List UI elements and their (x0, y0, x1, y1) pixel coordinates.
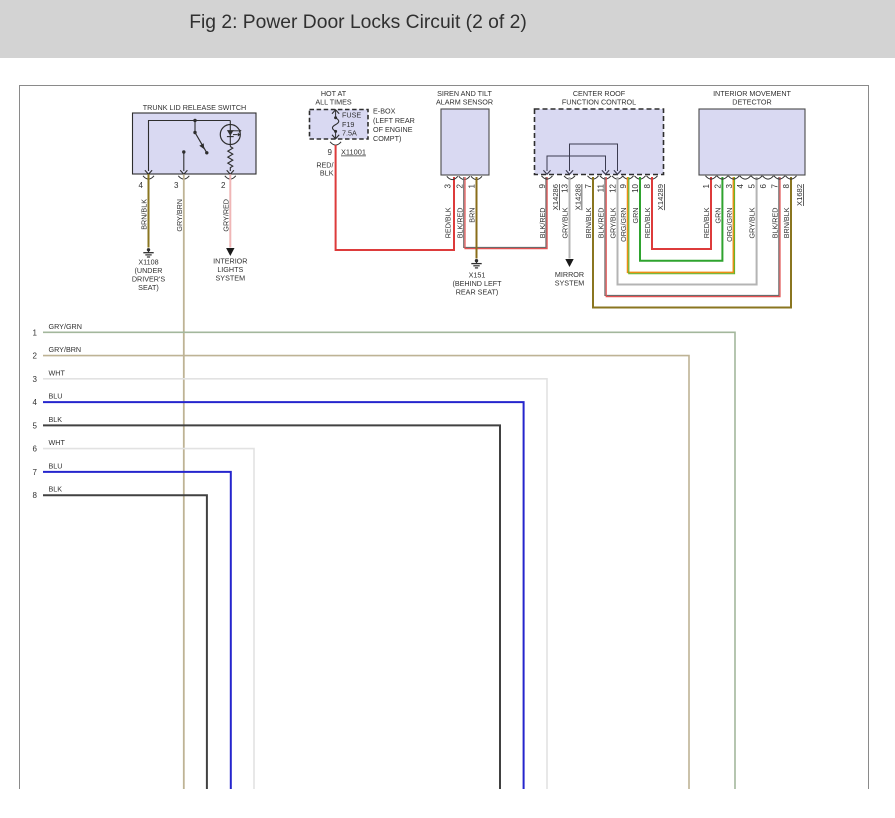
wire: BRN/BLK pin 7 to detector pin 8 (593, 177, 791, 308)
svg-text:8: 8 (782, 183, 791, 188)
svg-text:WHT: WHT (49, 438, 66, 447)
svg-text:BRN/BLK: BRN/BLK (782, 207, 791, 238)
svg-text:SYSTEM: SYSTEM (555, 279, 585, 288)
arrow to mirror system (565, 259, 573, 267)
svg-text:RED/BLK: RED/BLK (702, 207, 711, 238)
svg-text:1: 1 (702, 183, 711, 188)
wire: RED/BLK from fuse to siren pin 3 (336, 145, 454, 250)
svg-text:BRN: BRN (468, 208, 477, 223)
svg-text:4: 4 (139, 181, 144, 190)
svg-text:12: 12 (609, 183, 618, 192)
svg-text:BLK/RED: BLK/RED (770, 208, 779, 239)
LED D1 with resistor (229, 121, 231, 147)
svg-text:Fig 2: Power Door Locks Circui: Fig 2: Power Door Locks Circuit (2 of 2) (189, 12, 527, 33)
connector pins under detector (706, 176, 717, 179)
svg-text:2: 2 (455, 183, 464, 188)
svg-text:SYSTEM: SYSTEM (216, 274, 246, 283)
connector under fuse (330, 142, 341, 145)
svg-text:9: 9 (538, 183, 547, 188)
connector pins under siren (447, 176, 458, 179)
svg-text:2: 2 (713, 183, 722, 188)
header bar (0, 0, 895, 58)
svg-text:ORG/GRN: ORG/GRN (619, 208, 628, 242)
svg-text:7.5A: 7.5A (342, 129, 357, 138)
wire: GRN pin 10 to detector pin 2 (640, 177, 722, 261)
svg-text:SEAT): SEAT) (138, 283, 159, 292)
svg-text:ALARM SENSOR: ALARM SENSOR (436, 98, 493, 107)
svg-text:BLK/RED: BLK/RED (597, 208, 606, 239)
interior movement detector box (699, 109, 805, 175)
wire: pin 3 stub inside switch (182, 150, 185, 153)
svg-text:8: 8 (643, 183, 652, 188)
svg-text:5: 5 (33, 421, 38, 430)
svg-text:RED/BLK: RED/BLK (443, 207, 452, 238)
svg-text:5: 5 (748, 183, 757, 188)
fuse F19 7.5A (332, 110, 339, 114)
svg-text:BLK: BLK (320, 169, 334, 178)
ground X1108 (147, 248, 150, 251)
svg-text:10: 10 (631, 183, 640, 192)
resistor R1 (in switch) (228, 147, 233, 172)
svg-text:3: 3 (443, 183, 452, 188)
wire: RED/BLK pin 8 to detector pin 1 (652, 177, 711, 249)
node: switch common junction (193, 119, 196, 122)
svg-text:BLU: BLU (49, 461, 63, 470)
svg-text:ORG/GRN: ORG/GRN (725, 208, 734, 242)
svg-text:GRY/BLK: GRY/BLK (561, 207, 570, 238)
svg-text:BLU: BLU (49, 392, 63, 401)
fuse box (E-BOX) (310, 110, 369, 140)
svg-text:3: 3 (725, 183, 734, 188)
svg-text:REAR SEAT): REAR SEAT) (456, 288, 499, 297)
wire: ORG/GRN pin 9 to detector pin 3 (628, 177, 734, 272)
svg-text:WHT: WHT (49, 368, 66, 377)
svg-text:9: 9 (619, 183, 628, 188)
svg-text:GRY/GRN: GRY/GRN (49, 322, 82, 331)
center roof function control box (535, 109, 664, 175)
svg-text:1: 1 (468, 183, 477, 188)
svg-text:X14289: X14289 (656, 184, 665, 210)
wire: BLK/RED pin 11 to detector pin 7 (605, 177, 779, 295)
svg-text:13: 13 (561, 183, 570, 192)
switch blade (194, 121, 196, 133)
svg-text:GRY/RED: GRY/RED (221, 199, 230, 232)
svg-text:6: 6 (759, 183, 768, 188)
svg-text:E-BOX: E-BOX (373, 107, 396, 116)
svg-text:OF ENGINE: OF ENGINE (373, 125, 413, 134)
svg-text:ALL TIMES: ALL TIMES (315, 98, 352, 107)
siren and tilt alarm sensor box (441, 109, 489, 175)
svg-text:X14286: X14286 (551, 184, 560, 210)
svg-text:GRY/BRN: GRY/BRN (49, 345, 82, 354)
svg-text:GRY/BRN: GRY/BRN (175, 199, 184, 232)
svg-text:X11001: X11001 (341, 148, 366, 157)
svg-text:GRN: GRN (631, 208, 640, 224)
svg-text:7: 7 (584, 183, 593, 188)
svg-text:COMPT): COMPT) (373, 134, 401, 143)
svg-text:7: 7 (33, 468, 38, 477)
wire: BRN siren pin 1 to ground X151 (476, 177, 478, 259)
svg-text:X14288: X14288 (574, 184, 583, 210)
svg-text:1: 1 (33, 328, 38, 337)
svg-text:(LEFT REAR: (LEFT REAR (373, 116, 415, 125)
svg-text:BRN/BLK: BRN/BLK (584, 207, 593, 238)
svg-text:GRN: GRN (713, 208, 722, 224)
svg-text:BLK/RED: BLK/RED (455, 208, 464, 239)
svg-text:GRY/BLK: GRY/BLK (748, 207, 757, 238)
wire: GRY/BRN from switch pin 3 down off page (183, 174, 185, 789)
svg-text:BLK: BLK (49, 485, 63, 494)
svg-text:TRUNK LID RELEASE SWITCH: TRUNK LID RELEASE SWITCH (143, 103, 246, 112)
internal link pin 9 to pin 11 (547, 156, 606, 171)
wire: GRY/BLK pin 13 to mirror system (569, 177, 571, 259)
svg-text:BLK: BLK (49, 415, 63, 424)
wire: GRY/BLK pin 12 to detector pin 5 (618, 177, 757, 285)
svg-text:2: 2 (33, 352, 38, 361)
svg-text:X1682: X1682 (795, 184, 804, 206)
svg-text:BLK/RED: BLK/RED (538, 208, 547, 239)
svg-text:7: 7 (770, 183, 779, 188)
svg-text:FUNCTION CONTROL: FUNCTION CONTROL (562, 98, 636, 107)
internal link pin 13 to pin 12 (570, 144, 618, 171)
svg-text:DETECTOR: DETECTOR (732, 98, 771, 107)
switch S1 box: trunk lid release switch (133, 113, 257, 174)
svg-text:4: 4 (33, 398, 38, 407)
svg-text:GRY/BLK: GRY/BLK (609, 207, 618, 238)
svg-text:9: 9 (328, 148, 333, 157)
svg-text:FUSE: FUSE (342, 111, 361, 120)
svg-text:4: 4 (736, 183, 745, 188)
svg-text:6: 6 (33, 445, 38, 454)
svg-text:BRN/BLK: BRN/BLK (140, 199, 149, 230)
wire: BRN/BLK from switch pin 4 to ground (148, 174, 150, 247)
svg-text:3: 3 (174, 181, 179, 190)
arrow to interior lights system (226, 248, 234, 256)
svg-text:3: 3 (33, 375, 38, 384)
svg-text:2: 2 (221, 181, 226, 190)
svg-text:11: 11 (597, 183, 606, 192)
ground X151 (475, 259, 478, 262)
wire: GRY/RED from switch pin 2 to interior lights (229, 174, 231, 247)
connector pins under switch (143, 176, 154, 179)
svg-text:8: 8 (33, 491, 38, 500)
wire: BLK/RED siren pin 2 to center roof pin 9 (464, 177, 546, 247)
connector pins under center roof control (542, 176, 553, 179)
svg-text:RED/BLK: RED/BLK (643, 207, 652, 238)
internal wire: top bus in switch (149, 121, 231, 172)
